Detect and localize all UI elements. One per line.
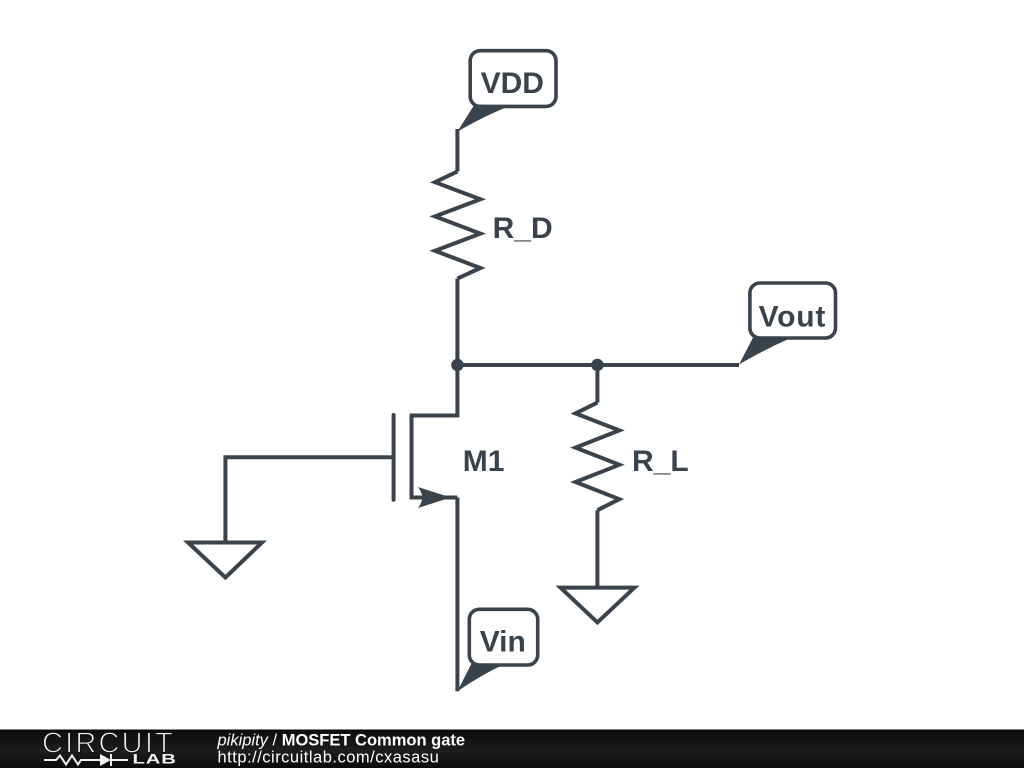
svg-text:R_L: R_L [632,445,689,478]
source arrow [418,487,451,508]
node A (drain junction) [451,359,463,371]
net flag Vin [457,609,537,691]
resistor R_D [435,172,480,279]
wire M1 gate [225,457,393,542]
svg-text:pikipity / MOSFET Common gate: pikipity / MOSFET Common gate [217,731,466,749]
channel bar [410,414,414,500]
svg-text:M1: M1 [463,445,505,478]
wire node A to M1 drain [412,365,458,416]
resistor R_L [576,403,620,511]
ground (gate) [188,543,262,578]
wire R_D to node A [455,279,459,365]
node B (R_L junction) [591,359,603,371]
net flag Vout [739,283,836,365]
svg-text:LAB: LAB [133,751,177,767]
logo CIRCUIT LAB [42,728,177,767]
gate bar [392,415,396,500]
ground (under R_L) [561,588,635,623]
wire node A to Vout [457,363,739,367]
svg-text:Vout: Vout [759,300,827,333]
transistor M1 [394,414,458,509]
logo resistor-diode glyph [44,756,100,765]
net flag VDD [457,51,556,132]
svg-text:R_D: R_D [493,212,553,245]
svg-text:VDD: VDD [481,67,544,100]
wire node B to R_L [595,365,599,403]
svg-text:http://circuitlab.com/cxasasu: http://circuitlab.com/cxasasu [218,749,440,767]
source stub [412,496,458,500]
wire M1 source to Vin [455,498,459,692]
wire R_L to ground [595,510,599,587]
svg-text:Vin: Vin [480,625,526,658]
footer bar [0,730,1024,768]
wire VDD to R_D [455,129,459,172]
